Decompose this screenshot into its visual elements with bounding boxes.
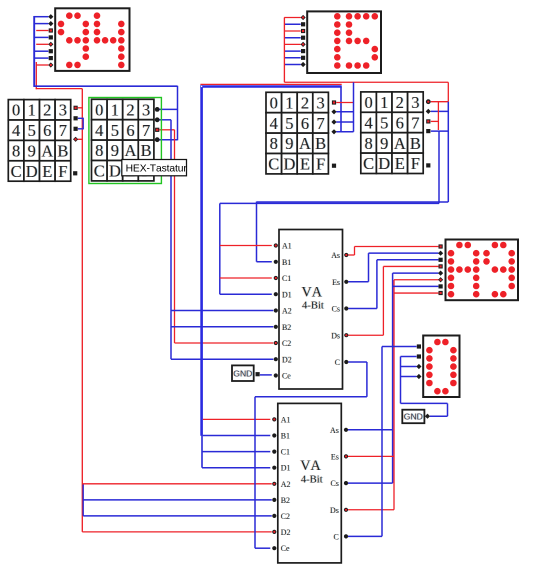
- wire net U1.Cs to DIS3 pin3: [377, 259, 439, 261]
- svg-text:B: B: [315, 134, 326, 153]
- wire net KB bit1 to U1 pin B2: [171, 326, 273, 328]
- svg-text:1: 1: [380, 93, 388, 112]
- wire keypad TA4 output 4 stub: [431, 130, 449, 132]
- wire net U2.C to DIS4 pin1: [382, 346, 417, 348]
- svg-text:5: 5: [111, 121, 119, 140]
- wire net K2 bit0 vertical x=448.3 (red): [447, 82, 449, 101]
- svg-text:9: 9: [285, 134, 293, 153]
- display DIS3 dot-matrix showing A9 (sum): [438, 240, 518, 301]
- svg-text:A: A: [41, 142, 53, 161]
- svg-text:8: 8: [364, 134, 372, 153]
- wire display DIS2 input pin 4 stub: [284, 37, 301, 39]
- wire display DIS1 input pin 1 stub: [34, 16, 49, 18]
- svg-text:4: 4: [95, 121, 103, 140]
- wire net KB red vertical x=174.5 down to U1: [174, 130, 176, 343]
- svg-text:Cs: Cs: [332, 305, 340, 314]
- wire U1 output C stub: [348, 361, 367, 363]
- wire net KA bit1 to U2 pin B2: [83, 499, 272, 501]
- wire keypad TA3 output 4 stub: [336, 131, 353, 133]
- wire display DIS1 input pin 2 stub: [34, 23, 49, 25]
- wire net U1.Es to DIS3 pin2: [369, 252, 439, 254]
- wire selected net thick horizontal y=86.5: [200, 85, 341, 87]
- svg-text:D1: D1: [282, 290, 292, 299]
- wire net U2.C vertical x=382: [381, 347, 383, 537]
- svg-text:VA: VA: [302, 284, 323, 300]
- svg-text:9: 9: [380, 134, 388, 153]
- wire U1 output Es stub: [348, 281, 368, 283]
- wire net GND2 into GND2 pin: [430, 415, 448, 417]
- svg-text:C: C: [94, 162, 105, 181]
- svg-text:6: 6: [126, 121, 134, 140]
- op-amp-style adder U1 (VA 4-Bit, low nibble): [274, 230, 349, 390]
- svg-text:0: 0: [12, 101, 20, 120]
- svg-text:2: 2: [301, 93, 309, 112]
- svg-text:3: 3: [411, 93, 419, 112]
- svg-text:C: C: [268, 155, 279, 174]
- tooltip label HEX-Tastatur: [122, 160, 188, 176]
- svg-text:F: F: [316, 155, 325, 174]
- svg-text:Ce: Ce: [281, 544, 290, 553]
- wire net KA to DIS1 horizontal run y=88.6: [36, 88, 83, 90]
- wire net KA bit3 to U2 pin D2: [82, 531, 271, 533]
- wire keypad TA2 output 3 stub: [159, 129, 174, 131]
- svg-text:5: 5: [380, 113, 388, 132]
- svg-text:7: 7: [411, 113, 419, 132]
- wire net U1.Ds vertical x=383.4: [382, 266, 384, 335]
- wire net U2.Es/Ds red vertical x=394: [393, 280, 395, 510]
- svg-text:A: A: [394, 134, 406, 153]
- hex keypad TA4 (value 5): [361, 92, 431, 174]
- wire net U2.As to DIS3 pin5: [393, 272, 439, 274]
- wire net U1.Ds to DIS3 pin4: [383, 265, 438, 267]
- svg-text:As: As: [331, 251, 340, 260]
- svg-text:1: 1: [285, 93, 293, 112]
- svg-text:D: D: [26, 162, 38, 181]
- wire U1 output Ds stub: [348, 334, 383, 336]
- svg-text:B2: B2: [282, 323, 291, 332]
- svg-text:9: 9: [28, 142, 36, 161]
- wire net KB bit0 to U1 pin A2: [171, 310, 273, 312]
- wire U2 pin B1 feed from thick bus: [203, 435, 270, 437]
- svg-text:B1: B1: [281, 432, 290, 441]
- wire display DIS1 input pin 7 stub: [34, 57, 49, 59]
- svg-text:E: E: [300, 155, 310, 174]
- wire net U1.Cs vertical x=376.9: [376, 260, 378, 309]
- wire keypad TA1 output 1 stub: [78, 107, 83, 109]
- wire display DIS2 input pin 1 stub: [284, 17, 301, 19]
- wire keypad TA1 output 4 stub: [78, 138, 83, 140]
- svg-text:2: 2: [126, 100, 134, 119]
- wire display DIS2 input pin 5 stub: [284, 43, 301, 45]
- svg-text:A1: A1: [282, 242, 292, 251]
- wire U1 pin A1 feed (red): [220, 245, 272, 247]
- svg-text:7: 7: [316, 114, 324, 133]
- wire keypad TA3 output 1 stub: [336, 102, 353, 104]
- svg-text:As: As: [330, 426, 339, 435]
- svg-text:8: 8: [95, 141, 103, 160]
- svg-text:B: B: [410, 134, 421, 153]
- wire net GND1 into U1 pin Ce: [260, 374, 272, 376]
- svg-text:9: 9: [111, 141, 119, 160]
- wire U2 pin A1 feed (red from thick bus): [203, 418, 270, 420]
- wire net U1.C into U2 pin Ce: [255, 547, 270, 549]
- svg-text:B2: B2: [281, 496, 290, 505]
- svg-text:4-Bit: 4-Bit: [301, 475, 323, 486]
- wire net KB bit3 to U1 pin D2: [171, 358, 273, 360]
- wire keypad TA4 output 1 stub: [431, 101, 449, 103]
- svg-text:4: 4: [364, 113, 372, 132]
- wire keypad TA4 output 3 stub: [431, 120, 439, 122]
- svg-text:6: 6: [301, 114, 309, 133]
- svg-text:0: 0: [95, 100, 103, 119]
- wire net KB to DIS1 horizontal run y=86: [34, 85, 178, 87]
- hex keypad TA1 (value 9): [8, 100, 78, 182]
- wire net U1.As vertical x=354.5: [354, 247, 356, 256]
- wire net KA bit2 to U2 pin C2: [83, 515, 272, 517]
- svg-text:1: 1: [111, 100, 119, 119]
- svg-text:6: 6: [43, 121, 51, 140]
- wire display DIS1 input pin 5 stub: [36, 43, 48, 45]
- svg-text:A: A: [299, 134, 311, 153]
- svg-text:F: F: [58, 162, 67, 181]
- wire selected net thick vertical x=201.5: [200, 85, 203, 436]
- wire net K2 bit3 vertical x=439: [438, 131, 440, 203]
- wire U2 pin C1 feed: [202, 451, 270, 453]
- wire display DIS2 input pin 2 stub: [284, 23, 301, 25]
- svg-text:D: D: [109, 162, 121, 181]
- svg-text:Ds: Ds: [330, 506, 339, 515]
- wire net K2 horizontal run y=203.4: [220, 202, 439, 204]
- display DIS1 dot-matrix showing 94: [48, 8, 129, 71]
- wire U2 output Ds stub: [348, 509, 394, 511]
- wire U2 output Cs stub: [348, 482, 393, 484]
- wire vertical x=202 from B1 level to D1 level: [201, 436, 203, 468]
- wire U2 output Es stub: [348, 455, 394, 457]
- wire net U2.Cs to DIS3 pin7: [393, 285, 439, 287]
- wire keypad TA2 output 1 stub: [159, 108, 177, 110]
- wire U2 pin D1 feed: [202, 467, 270, 469]
- svg-text:5: 5: [28, 121, 36, 140]
- wire red run above thick bus y=84.4: [200, 83, 341, 85]
- wire net K2 vertical x=219.8 to U1 inputs: [219, 203, 221, 294]
- wire net U1.Es vertical x=368.5: [368, 253, 370, 282]
- svg-text:Cs: Cs: [330, 479, 338, 488]
- wire net KA-bit2/3 blue vertical overlay upper: [82, 118, 84, 129]
- svg-text:C: C: [363, 154, 374, 173]
- wire keypad TA1 output 2 stub: [78, 117, 84, 119]
- wire DIS4 pin4 stub: [401, 376, 417, 378]
- wire net U1.C vertical x=255 down to Ce: [254, 397, 256, 548]
- svg-text:D: D: [378, 154, 390, 173]
- svg-text:GND: GND: [233, 368, 252, 378]
- svg-text:4-Bit: 4-Bit: [302, 301, 324, 312]
- svg-text:0: 0: [364, 93, 372, 112]
- svg-text:A2: A2: [282, 307, 292, 316]
- wire net U1.C vertical x=366.9: [366, 362, 368, 397]
- svg-text:B: B: [57, 142, 68, 161]
- svg-text:8: 8: [12, 142, 20, 161]
- svg-text:2: 2: [43, 101, 51, 120]
- svg-text:HEX-Tastatur: HEX-Tastatur: [126, 164, 188, 175]
- wire display DIS2 input pin 8 stub: [284, 64, 301, 66]
- junction white endpoint marker on selected wire: [201, 86, 202, 87]
- svg-text:D1: D1: [281, 464, 291, 473]
- wire net U2.As/Cs blue vertical x=392.6: [392, 273, 394, 483]
- wire net K2 vertical x=256.5 to U1 pin B1: [256, 202, 258, 262]
- svg-text:A2: A2: [281, 480, 291, 489]
- ground GND1 (to U1 Ce): [232, 365, 260, 381]
- wire U1 output As stub: [348, 254, 354, 256]
- wire net K2 blue vertical x=448.3: [447, 102, 449, 202]
- svg-text:4: 4: [12, 121, 20, 140]
- svg-text:VA: VA: [300, 458, 321, 474]
- wire U1 pin D1 feed: [220, 293, 272, 295]
- svg-text:Ce: Ce: [282, 372, 291, 381]
- svg-text:Es: Es: [331, 452, 339, 461]
- wire display DIS1 input pin 4 stub: [34, 36, 49, 38]
- wire U2 output As stub: [348, 429, 393, 431]
- display DIS4 single digit showing 0 (carry): [416, 336, 459, 398]
- display DIS2 dot-matrix showing 15: [301, 11, 382, 73]
- wire display DIS2 input pin 7 stub: [284, 57, 301, 59]
- wire net GND2 vertical x=447.5: [447, 403, 449, 416]
- wire display DIS2 input pin 3 stub: [284, 30, 301, 32]
- wire display DIS2 red trunk x=284: [283, 18, 285, 83]
- svg-text:E: E: [395, 154, 405, 173]
- wire net K2 horizontal run y=202: [257, 201, 449, 203]
- wire net KA vertical run x=82: [81, 89, 83, 532]
- wire net U1.C horizontal y=396.8: [255, 396, 367, 398]
- svg-text:C: C: [334, 532, 339, 541]
- wire display DIS1 input pin 8 stub: [36, 64, 48, 66]
- adder U2 (VA 4-Bit, high nibble): [272, 403, 348, 563]
- svg-text:C1: C1: [281, 448, 290, 457]
- wire net KA bit0 to U2 pin A2: [82, 483, 271, 485]
- wire keypad TA2 output 4 stub: [159, 139, 177, 141]
- svg-text:6: 6: [396, 113, 404, 132]
- wire display DIS1 input pin 3 stub: [36, 30, 48, 32]
- wire DIS4 pin3 stub: [401, 366, 417, 368]
- svg-text:8: 8: [270, 134, 278, 153]
- svg-text:0: 0: [270, 93, 278, 112]
- wire display DIS2 input pin 6 stub: [284, 50, 301, 52]
- svg-text:1: 1: [28, 101, 36, 120]
- wire U1 pin C1 feed (red): [220, 277, 272, 279]
- wire net K2 bit2 vertical x=438.4: [437, 102, 439, 130]
- svg-text:D: D: [283, 155, 295, 174]
- wire U2 output C stub: [348, 535, 382, 537]
- svg-text:Ds: Ds: [331, 331, 340, 340]
- wire red run y=82.3 from trunk to keypad TA4: [284, 81, 448, 83]
- svg-text:C1: C1: [282, 274, 291, 283]
- wire keypad TA3 output 2 stub: [336, 111, 353, 113]
- wire keypad TA3 output 3 stub: [336, 121, 353, 123]
- svg-text:2: 2: [396, 93, 404, 112]
- wire display DIS1 input pin 6 stub: [34, 50, 49, 52]
- svg-text:Es: Es: [332, 278, 340, 287]
- svg-text:A1: A1: [281, 415, 291, 424]
- svg-text:3: 3: [59, 101, 67, 120]
- wire keypad TA2 output 2 stub: [159, 119, 171, 121]
- ground GND2 (to DIS4 inputs): [402, 410, 430, 424]
- wire vertical x=341 from bus to K1 pin4: [340, 87, 342, 132]
- wire bus vertical left of DIS1 (blue trunk): [33, 16, 35, 87]
- svg-text:B: B: [141, 141, 152, 160]
- wire keypad TA1 output 3 stub: [78, 128, 84, 130]
- wire net GND2 vertical x=400.5: [400, 357, 402, 404]
- svg-text:4: 4: [270, 114, 278, 133]
- svg-text:C: C: [11, 162, 22, 181]
- wire bus vertical left of DIS1 (red trunk): [35, 62, 37, 89]
- wire net K1 vertical x=353.5: [353, 82, 355, 132]
- wire net KB vertical x=177: [177, 86, 179, 141]
- svg-text:D2: D2: [282, 355, 292, 364]
- wire U1 output Cs stub: [348, 308, 377, 310]
- svg-text:C: C: [335, 358, 340, 367]
- hex keypad TA2 (value 4, selected): [89, 98, 161, 184]
- wire U1 pin B1 feed: [257, 261, 272, 263]
- wire net U2.Ds to DIS3 pin8: [394, 292, 438, 294]
- wire net KB vertical x=171 down to U1: [170, 120, 172, 359]
- wire net U2.Es to DIS3 pin6: [394, 279, 438, 281]
- svg-text:7: 7: [59, 121, 67, 140]
- wire DIS4 pin2 stub: [401, 356, 417, 358]
- svg-text:3: 3: [142, 100, 150, 119]
- svg-text:7: 7: [142, 121, 150, 140]
- wire net KA-bit2/3 blue vertical overlay lower: [82, 484, 84, 516]
- svg-text:B1: B1: [282, 258, 291, 267]
- wire net KB bit2 to U1 pin C2: [175, 342, 274, 344]
- svg-text:A: A: [125, 141, 137, 160]
- svg-text:F: F: [411, 154, 420, 173]
- svg-text:C2: C2: [281, 512, 290, 521]
- wire net U1.As to DIS3 pin1: [355, 246, 439, 248]
- wire net GND2 horizontal y=403.4: [401, 402, 448, 404]
- svg-text:D2: D2: [281, 528, 291, 537]
- svg-text:3: 3: [316, 93, 324, 112]
- hex keypad TA3 (value 1): [266, 92, 337, 174]
- svg-text:E: E: [42, 162, 52, 181]
- wire keypad TA4 output 2 stub: [431, 110, 449, 112]
- svg-text:GND: GND: [404, 412, 423, 422]
- svg-text:C2: C2: [282, 339, 291, 348]
- svg-text:5: 5: [285, 114, 293, 133]
